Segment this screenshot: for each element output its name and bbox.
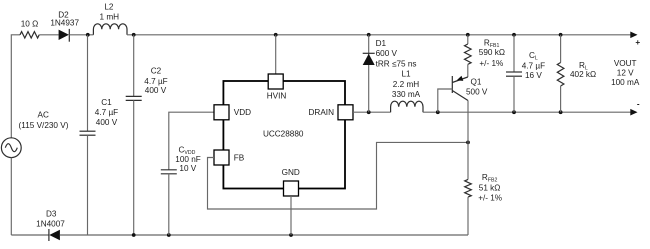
node dot RL top junction	[559, 33, 563, 37]
svg-text:16 V: 16 V	[525, 71, 542, 80]
svg-text:tRR ≤75 ns: tRR ≤75 ns	[376, 59, 417, 68]
label RFB2 51k	[478, 173, 502, 203]
wire CVDD to bottom rail	[168, 174, 170, 235]
wire C1 branch lower	[87, 135, 89, 235]
node dot FB/RFB junction	[466, 141, 470, 145]
wire top rail main	[127, 34, 631, 36]
wire HVIN to top rail	[275, 35, 277, 74]
capacitor C2	[126, 96, 142, 100]
diode D2	[59, 29, 70, 42]
wire AC to bottom rail	[10, 158, 12, 235]
wire DRAIN to L1	[353, 111, 391, 113]
label L1 2.2mH 330mA	[392, 69, 421, 99]
svg-text:DRAIN: DRAIN	[309, 108, 335, 117]
pin HVIN	[267, 74, 287, 101]
resistor R 10 ohm	[20, 32, 39, 38]
node dot junction L2/C2	[132, 33, 136, 37]
svg-text:AC: AC	[38, 111, 49, 120]
node dot CVDD bottom junction	[167, 233, 171, 237]
inductor L1	[391, 101, 423, 112]
node dot Q1 base junction	[436, 110, 440, 114]
wire Q1 base to mid rail	[438, 89, 453, 112]
wire resistor to D2	[39, 34, 58, 36]
svg-text:D1: D1	[376, 39, 387, 48]
svg-text:Q1: Q1	[471, 77, 482, 86]
diode D1	[363, 53, 375, 65]
pin VDD	[214, 105, 251, 120]
resistor RFB1	[465, 35, 472, 65]
label CVDD 100nF 10V	[175, 145, 201, 173]
node dot CL top junction	[512, 33, 516, 37]
svg-text:VDD: VDD	[234, 108, 251, 117]
svg-text:4.7 µF: 4.7 µF	[144, 77, 167, 86]
svg-text:51 kΩ: 51 kΩ	[479, 183, 501, 192]
resistor RFB2	[465, 179, 472, 235]
capacitor C1	[80, 131, 96, 135]
wire Q1 collector down	[467, 101, 469, 180]
svg-text:402 kΩ: 402 kΩ	[570, 70, 596, 79]
svg-text:4.7 µF: 4.7 µF	[522, 61, 545, 70]
capacitor CVDD	[161, 170, 177, 174]
svg-text:2.2 mH: 2.2 mH	[393, 80, 419, 89]
wire mid rail to output	[423, 111, 631, 113]
svg-text:L1: L1	[401, 69, 411, 78]
svg-text:12 V: 12 V	[617, 68, 634, 77]
svg-text:+/- 1%: +/- 1%	[478, 194, 502, 203]
svg-text:D3: D3	[46, 210, 57, 219]
AC sine wave	[5, 144, 17, 152]
wire C1 branch upper	[87, 35, 89, 131]
svg-text:RFB2: RFB2	[482, 173, 498, 184]
svg-text:10 V: 10 V	[179, 164, 196, 173]
op-amp U1 UCC28880 body	[223, 81, 345, 189]
svg-text:10 Ω: 10 Ω	[21, 20, 39, 29]
diode D3	[49, 229, 60, 241]
label Q1 500V	[466, 77, 488, 96]
transistor Q1	[452, 64, 468, 100]
label D3 1N4007	[36, 210, 65, 229]
label C1 4.7uF 400V	[95, 98, 118, 127]
resistor RL	[557, 35, 564, 112]
node dot RFB1 top junction	[466, 33, 470, 37]
svg-text:CL: CL	[529, 51, 538, 62]
svg-text:400 V: 400 V	[145, 86, 167, 95]
svg-text:C1: C1	[101, 98, 112, 107]
svg-text:500 V: 500 V	[466, 88, 488, 97]
arrow VOUT plus terminal	[630, 32, 637, 39]
label C2 4.7uF 400V	[144, 67, 167, 95]
node dot D1 top junction	[367, 33, 371, 37]
svg-text:-: -	[637, 100, 640, 109]
label AC (115 V/230 V)	[19, 111, 69, 131]
svg-text:330 mA: 330 mA	[392, 90, 421, 99]
pin DRAIN	[309, 105, 353, 120]
label VOUT 12V 100mA	[611, 59, 640, 87]
svg-text:L2: L2	[104, 3, 114, 12]
svg-text:(115 V/230 V): (115 V/230 V)	[19, 121, 69, 130]
label RFB1 590k	[479, 39, 505, 68]
wire C2 branch upper	[133, 35, 135, 97]
capacitor CL	[506, 72, 522, 76]
node dot C2 bottom junction	[132, 233, 136, 237]
wire C2 branch lower	[133, 100, 135, 235]
pin FB	[214, 150, 245, 165]
wire FB net	[208, 142, 469, 209]
label RL 402k	[570, 61, 596, 79]
svg-text:1 mH: 1 mH	[100, 12, 120, 21]
label CL 4.7uF 16V	[522, 51, 545, 80]
wire D1 branch	[368, 35, 370, 112]
svg-text:+/- 1%: +/- 1%	[479, 59, 503, 68]
node dot HVIN junction	[274, 33, 278, 37]
wire CL branch upper	[513, 35, 515, 72]
svg-text:C2: C2	[151, 67, 162, 76]
svg-text:100 nF: 100 nF	[175, 155, 201, 164]
wire bottom rail main	[60, 234, 468, 236]
svg-text:600 V: 600 V	[376, 49, 398, 58]
pin GND	[282, 168, 300, 196]
label D1 600V tRR	[376, 39, 417, 68]
svg-text:GND: GND	[282, 168, 300, 177]
node dot GND bottom junction	[289, 233, 293, 237]
node dot D1 bottom junction	[367, 110, 371, 114]
wire GND pin to bottom rail	[290, 196, 292, 235]
svg-text:HVIN: HVIN	[267, 92, 287, 101]
svg-text:FB: FB	[234, 153, 245, 162]
node dot CL bottom junction	[512, 110, 516, 114]
wire CL branch lower	[513, 76, 515, 112]
inductor L2	[93, 24, 127, 35]
svg-text:1N4007: 1N4007	[36, 220, 65, 229]
label L2 1 mH	[100, 3, 120, 22]
svg-text:VOUT: VOUT	[614, 59, 637, 68]
svg-text:590 kΩ: 590 kΩ	[479, 48, 505, 57]
node dot RL bottom junction	[559, 110, 563, 114]
wire top rail left segment	[11, 35, 20, 138]
svg-text:UCC28880: UCC28880	[263, 130, 304, 139]
svg-text:1N4937: 1N4937	[50, 18, 79, 27]
arrow VOUT minus terminal	[630, 109, 637, 116]
wire bottom rail left	[11, 234, 49, 236]
wire VDD pin to CVDD	[169, 112, 214, 170]
svg-text:4.7 µF: 4.7 µF	[95, 108, 118, 117]
wire D2 to L2	[69, 34, 93, 36]
AC source circle	[1, 138, 21, 158]
label D2 1N4937	[50, 11, 79, 28]
node dot junction D2/C1	[86, 33, 90, 37]
svg-text:100 mA: 100 mA	[611, 78, 640, 87]
svg-text:+: +	[635, 38, 640, 47]
svg-text:400 V: 400 V	[96, 118, 118, 127]
